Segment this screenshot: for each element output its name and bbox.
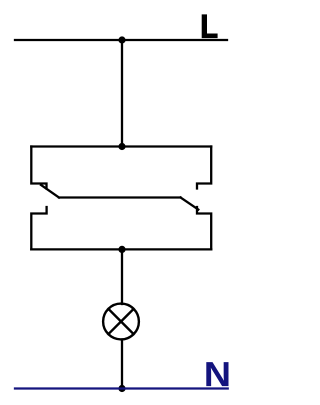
switch S1 lever — [41, 185, 59, 198]
node junction on L rail — [118, 36, 125, 43]
wire from lamp rail down to lamp — [121, 249, 123, 304]
switch S1 lower contact (open, to lamp rail) — [31, 207, 46, 249]
label N — [206, 362, 228, 386]
wire from lamp down to N — [121, 340, 123, 389]
wire from L down to switch feed rail — [121, 40, 123, 147]
wire switch feed rail (top of switch block) — [31, 145, 211, 147]
label L — [202, 14, 218, 38]
wire traveler between S1 and S2 — [59, 196, 181, 198]
node junction on lamp rail — [118, 246, 125, 253]
lamp E1 (circle with cross) — [103, 304, 139, 340]
switch S2 lower contact (to lamp rail) — [197, 207, 211, 249]
wire L line (phase rail) — [15, 39, 227, 41]
switch S1 upper contact (fed from L) — [31, 147, 46, 189]
node junction on N rail — [118, 385, 125, 392]
wire lamp rail (bottom of switch block) — [31, 248, 211, 250]
wire N line (neutral rail) — [15, 387, 228, 389]
switch S2 lever — [181, 198, 199, 210]
switch S2 upper contact (open, fed from L) — [197, 147, 211, 189]
node junction on switch feed rail — [118, 143, 125, 150]
